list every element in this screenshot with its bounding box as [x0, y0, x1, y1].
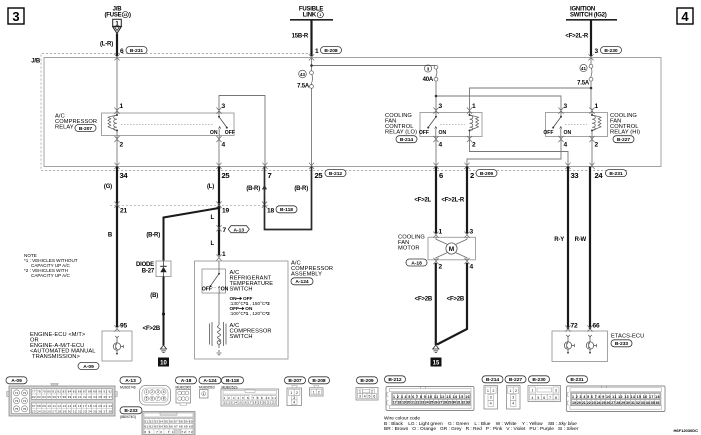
svg-text:1: 1	[439, 229, 443, 236]
svg-text:3: 3	[12, 9, 19, 24]
svg-text:1: 1	[146, 390, 148, 394]
svg-text:ON: ON	[439, 130, 447, 136]
svg-text:95: 95	[120, 323, 127, 330]
wire HI relay pin4 to pin 2 B-209	[467, 139, 561, 167]
svg-text:MU802905: MU802905	[176, 385, 192, 389]
svg-text:DIODE: DIODE	[136, 262, 154, 268]
svg-text:A-13: A-13	[233, 228, 244, 234]
svg-text:18: 18	[267, 208, 274, 215]
svg-text:B-212: B-212	[329, 171, 343, 177]
bottom boundary crossings	[114, 163, 594, 169]
svg-text:74: 74	[23, 399, 27, 403]
svg-text:6: 6	[151, 397, 153, 401]
svg-text:72 73: 72 73	[182, 430, 193, 434]
svg-text:5: 5	[369, 395, 371, 399]
svg-text:1 2 3 4 5 6 7 8 9 10 11 12 13: 1 2 3 4 5 6 7 8 9 10 11 12 13 14 15 16 1…	[572, 395, 660, 399]
node 1 B-208	[315, 47, 342, 55]
svg-text:(L): (L)	[207, 184, 214, 190]
power feed J/B FUSE 13	[104, 7, 131, 34]
svg-text:ON: ON	[221, 287, 229, 293]
svg-text:B-230: B-230	[604, 48, 618, 54]
svg-text:OFF: OFF	[419, 130, 429, 136]
LO relay pin 4	[433, 136, 438, 142]
svg-text:<F>2L-R: <F>2L-R	[565, 34, 588, 40]
connector A-18	[176, 377, 197, 406]
wire AC relay pin4 to pin 25	[218, 139, 220, 167]
svg-text:76: 76	[23, 407, 27, 411]
svg-text:21: 21	[120, 208, 127, 215]
connector A-124	[199, 377, 221, 398]
NOTE text	[24, 253, 78, 278]
A/C relay pin 2	[114, 136, 119, 142]
svg-text:4: 4	[531, 396, 533, 400]
svg-text:RELAY (HI): RELAY (HI)	[610, 130, 640, 136]
svg-text:SWITCH: SWITCH	[230, 287, 253, 293]
wire temp switch to compressor switch	[218, 293, 220, 322]
svg-text:ETACS-ECU: ETACS-ECU	[611, 334, 644, 340]
wire LO relay pin2 to pin 33	[470, 139, 569, 167]
A/C relay pin 4	[216, 136, 221, 142]
svg-text:5: 5	[146, 397, 148, 401]
motor pin 1	[433, 232, 438, 238]
wire diode to ground 10	[163, 277, 165, 346]
connector A-09	[6, 377, 117, 416]
svg-text:1: 1	[120, 103, 124, 110]
junction dot diode branch	[218, 207, 221, 210]
svg-text:77 78 79 80 81 82 83 84 85 86: 77 78 79 80 81 82 83 84 85 86 87 88 89 9…	[32, 390, 112, 394]
svg-text:4: 4	[490, 402, 492, 406]
svg-text:OFF: OFF	[225, 130, 235, 136]
A/C compressor relay label	[55, 114, 97, 132]
svg-text:B-212: B-212	[388, 377, 402, 383]
svg-text:A-09: A-09	[83, 364, 94, 370]
svg-text:2: 2	[318, 390, 320, 394]
svg-text:1: 1	[472, 103, 476, 110]
svg-text:7.5A: 7.5A	[297, 84, 310, 90]
ENGINE-ECU label	[30, 332, 99, 370]
wire (L) pin25 down	[218, 167, 220, 256]
node 3 B-230	[595, 47, 622, 55]
diode B-27	[136, 261, 171, 277]
svg-text:LINK: LINK	[303, 13, 317, 19]
svg-text:L: L	[211, 215, 215, 221]
A/C compressor assembly box	[195, 261, 289, 359]
HI relay pin 3	[558, 108, 563, 114]
pin 24 B-231 label	[595, 170, 627, 180]
svg-text:B-227: B-227	[617, 137, 631, 143]
svg-text:(B-R): (B-R)	[294, 186, 308, 192]
svg-text:1: 1	[532, 389, 534, 393]
svg-text:3: 3	[595, 48, 599, 55]
svg-text:33: 33	[571, 171, 579, 180]
svg-text:B-209: B-209	[480, 171, 494, 177]
svg-text:2: 2	[595, 142, 599, 149]
svg-text:(8B0X74G): (8B0X74G)	[120, 415, 136, 419]
svg-text:Wire colour code: Wire colour code	[384, 416, 420, 422]
wire (L-R) from fuse 13	[116, 34, 118, 56]
svg-text:B-230: B-230	[532, 377, 546, 383]
svg-text:1: 1	[510, 389, 512, 393]
connector B-207	[285, 377, 306, 406]
svg-text:15: 15	[433, 361, 440, 367]
svg-text:19: 19	[222, 208, 229, 215]
wire 15B-R	[310, 20, 312, 56]
svg-text:3: 3	[564, 103, 568, 110]
svg-text:8: 8	[555, 396, 557, 400]
svg-text:24: 24	[595, 171, 604, 180]
svg-text:3: 3	[512, 396, 514, 400]
motor pin 3	[464, 232, 469, 238]
svg-text:A-13: A-13	[125, 378, 136, 384]
wire branch to 40A fuse	[312, 65, 437, 68]
fuse 43 7.5A	[297, 70, 313, 89]
svg-text:B-208: B-208	[312, 378, 326, 384]
LO relay switch	[419, 109, 447, 139]
svg-text:A-124: A-124	[203, 378, 217, 384]
LO relay control dashed	[440, 124, 465, 126]
HI relay coil	[591, 109, 601, 139]
cooling fan control relay HI label	[610, 113, 640, 143]
svg-text:R-Y: R-Y	[554, 237, 564, 243]
cooling fan control relay LO label	[385, 113, 417, 143]
svg-text:3: 3	[439, 103, 443, 110]
motor pin 2	[433, 258, 438, 264]
svg-text:B : Black LG : Light green: B : Black LG : Light green G : Green L :…	[384, 421, 577, 427]
svg-text:2: 2	[492, 389, 494, 393]
motor pin 4	[464, 258, 469, 264]
wire F2L pin6 to motor pin1	[435, 167, 437, 234]
LO relay pin 3	[433, 108, 438, 114]
fusible link 1	[290, 7, 333, 20]
ETACS label	[611, 334, 644, 348]
svg-text:1: 1	[359, 390, 361, 394]
LO relay coil	[469, 109, 479, 139]
svg-text:15B-R: 15B-R	[292, 34, 309, 40]
svg-text:ON: ON	[564, 130, 572, 136]
wire F2L-R pin2 to motor pin3	[466, 167, 468, 234]
svg-text:4: 4	[364, 395, 366, 399]
junction dot 40A output	[435, 95, 438, 98]
B-118 crossing pin 18	[262, 202, 267, 208]
svg-text:ASSEMBLY: ASSEMBLY	[291, 272, 322, 278]
svg-text:92 93 94 95 96 97 98 99 30 31: 92 93 94 95 96 97 98 99 30 31 32 33 34 3…	[32, 395, 112, 399]
svg-text:10: 10	[160, 361, 167, 367]
svg-text:3: 3	[555, 389, 557, 393]
svg-text:34: 34	[120, 171, 129, 180]
svg-text:3: 3	[359, 395, 361, 399]
svg-text:R-W: R-W	[575, 237, 587, 243]
connector 7 A-13	[216, 225, 221, 231]
svg-text:23 24 25 26 27 28 29 30 31 32: 23 24 25 26 27 28 29 30 31 32 33 34 35 3…	[32, 409, 112, 413]
svg-text:<F>2B: <F>2B	[143, 326, 161, 332]
svg-text:3: 3	[470, 229, 474, 236]
svg-text:6: 6	[439, 171, 443, 180]
cooling fan motor label	[398, 235, 427, 267]
svg-text:1: 1	[315, 48, 319, 55]
A/C relay coil	[108, 109, 118, 139]
svg-text:(FUSE: (FUSE	[104, 13, 121, 19]
svg-text:7: 7	[268, 171, 272, 180]
svg-text:(L-R): (L-R)	[100, 42, 113, 48]
connector B-227	[505, 376, 526, 409]
svg-text:6: 6	[543, 396, 545, 400]
svg-text:25: 25	[315, 171, 324, 180]
motor symbol	[436, 237, 467, 259]
svg-text:B-27: B-27	[142, 268, 155, 274]
ETACS-ECU box	[552, 331, 608, 362]
svg-text:(B-R): (B-R)	[146, 233, 160, 239]
svg-text:M: M	[449, 246, 454, 253]
svg-text:3: 3	[490, 396, 492, 400]
svg-text:B-227: B-227	[509, 377, 523, 383]
svg-text:MU802746: MU802746	[120, 385, 136, 389]
wire AC relay pin3 to pin7	[219, 96, 265, 167]
svg-text:B-231: B-231	[570, 377, 584, 383]
svg-text:B-233: B-233	[615, 341, 629, 347]
svg-text:1: 1	[313, 390, 315, 394]
cooling fan control relay HI box	[546, 113, 608, 137]
ETACS pin 72	[565, 325, 570, 331]
connector B-118 dashed line	[110, 204, 270, 206]
svg-text:1 2 3 4 5 6: 1 2 3 4 5 6	[224, 396, 249, 400]
ETACS transistor 1	[564, 335, 574, 354]
svg-text:A-124: A-124	[295, 279, 309, 285]
wire R-Y pin33 to ETACS 72	[567, 167, 569, 330]
svg-text:B-208: B-208	[324, 48, 338, 54]
svg-text:43: 43	[300, 72, 305, 77]
svg-text:4: 4	[163, 390, 165, 394]
wire 15B-R inside jb down to fuse 43	[311, 58, 313, 71]
terminal crossing top boundary x591	[588, 54, 593, 60]
A/C relay control dashed	[121, 124, 214, 126]
wire F2B motor pin4 to ground 15	[437, 263, 467, 345]
svg-text:3: 3	[293, 396, 295, 400]
wire AC relay pin2 to pin 34	[116, 139, 118, 167]
HI relay pin 2	[589, 136, 594, 142]
pin 2 B-209 label	[470, 170, 497, 180]
svg-text:B-118: B-118	[226, 378, 239, 384]
wire fuse41 feed	[590, 58, 592, 109]
svg-text:MU802563: MU802563	[199, 385, 215, 389]
connector B-209	[356, 377, 378, 400]
svg-text:<F>2B: <F>2B	[415, 297, 433, 303]
svg-text:7: 7	[223, 227, 227, 234]
svg-text:7: 7	[157, 397, 159, 401]
svg-text:1 2 3 4 5 6 7 8 9 10 11 12 13: 1 2 3 4 5 6 7 8 9 10 11 12 13 14 15 16	[393, 395, 470, 399]
J/B dashed outline	[41, 54, 628, 171]
svg-text:2: 2	[515, 389, 517, 393]
svg-text:4: 4	[470, 264, 474, 271]
svg-text:1: 1	[222, 251, 226, 258]
connector B-214	[482, 376, 503, 409]
svg-text:2: 2	[296, 391, 298, 395]
HI relay switch	[543, 109, 571, 139]
svg-text:1: 1	[203, 392, 205, 396]
svg-text:7 8 9 10 11: 7 8 9 10 11	[253, 396, 277, 400]
svg-text:13: 13	[123, 13, 127, 17]
wire branch to diode B-27	[164, 208, 220, 261]
svg-text:RELAY (LO): RELAY (LO)	[385, 130, 417, 136]
svg-text:OFF: OFF	[202, 287, 212, 293]
svg-text:25: 25	[222, 171, 231, 180]
wire LO relay pin4 to pin 6	[435, 139, 437, 167]
svg-text:L: L	[211, 241, 215, 247]
svg-text:A-09: A-09	[11, 378, 22, 384]
svg-text:5: 5	[537, 396, 539, 400]
cooling fan control relay LO box	[420, 113, 482, 137]
connector B-212	[385, 376, 475, 411]
svg-text:): )	[129, 13, 131, 19]
svg-text:4: 4	[681, 9, 689, 24]
HI relay pin 4	[558, 136, 563, 142]
pin 25 B-212 label	[315, 170, 347, 180]
svg-text:3: 3	[157, 390, 159, 394]
fuse 41 7.5A	[577, 64, 593, 86]
svg-text:SWITCH: SWITCH	[230, 334, 253, 340]
A/C compressor assembly label	[291, 261, 333, 286]
wire (G) pin34 to ECU pin95	[116, 167, 118, 328]
svg-text:72: 72	[23, 391, 27, 395]
svg-text:BR : Brown O : Orange GR :: BR : Brown O : Orange GR : Grey R : Red …	[384, 426, 579, 432]
svg-text:H6F12030DC: H6F12030DC	[674, 428, 699, 433]
svg-text:3: 3	[222, 103, 226, 110]
svg-text::100°C*1 , 120°C*2: :100°C*1 , 120°C*2	[230, 311, 271, 316]
ETACS pin 66	[587, 325, 592, 331]
B-118 crossing pin 19	[216, 202, 221, 208]
connector B-208	[309, 377, 330, 396]
svg-text:61 62 63 64 65 66 67 68 69 60: 61 62 63 64 65 66 67 68 69 60	[145, 425, 193, 429]
svg-text:4: 4	[293, 400, 295, 404]
ground 10	[160, 345, 167, 353]
svg-text:TRANSMISSION>: TRANSMISSION>	[32, 354, 80, 360]
svg-text:(B-R): (B-R)	[246, 186, 260, 192]
svg-text:B-207: B-207	[79, 126, 93, 132]
HI relay control dashed	[565, 124, 587, 126]
B-118 crossing pin 21	[114, 202, 119, 208]
LO relay pin 2	[467, 136, 472, 142]
svg-text:19 20 21 22 23 24 25 26 27 28: 19 20 21 22 23 24 25 26 27 28 29 30 31 3…	[572, 401, 660, 405]
svg-text:ON: ON	[210, 130, 218, 136]
svg-text:7.5A: 7.5A	[577, 81, 590, 87]
svg-text:07 08 09 10 11 12 13 14 15 16: 07 08 09 10 11 12 13 14 15 16 17 18 19 2…	[32, 404, 112, 408]
svg-text:J/B: J/B	[31, 59, 41, 65]
wire jb feed to relay pin1	[116, 58, 118, 109]
svg-text:MOTOR: MOTOR	[398, 246, 420, 252]
wire HI relay pin2 to pin 24 B-231	[591, 139, 593, 167]
wire colour code	[384, 416, 579, 433]
junction dot 7.5A-41 output	[590, 87, 593, 90]
LO relay pin 1	[467, 108, 472, 114]
svg-text:A-18: A-18	[411, 260, 422, 266]
connector B-233	[120, 407, 195, 435]
temperature values	[230, 296, 271, 316]
connector B-231	[567, 376, 666, 412]
wire B-R U loop through B-118	[265, 167, 312, 230]
connector B-230	[528, 376, 561, 402]
page number box 4	[677, 8, 693, 24]
svg-text:A-18: A-18	[181, 378, 192, 384]
svg-text:1: 1	[487, 389, 489, 393]
compressor switch label	[230, 323, 272, 340]
svg-text:1: 1	[290, 391, 292, 395]
wire F2B motor pin2 to ground 15	[435, 263, 437, 345]
ENGINE-ECU transistor	[113, 336, 123, 355]
ETACS transistor 2	[586, 335, 596, 354]
svg-text:75: 75	[15, 407, 19, 411]
svg-text:(B): (B)	[150, 293, 158, 299]
A/C relay switch	[210, 109, 235, 139]
wire fuse43 to pin 25 B-212	[311, 89, 313, 167]
A/C compressor relay B-207 box	[102, 113, 235, 136]
wire 2L-R from ignition switch	[590, 20, 592, 56]
svg-text:2: 2	[151, 390, 153, 394]
svg-text:<F>2L-R: <F>2L-R	[441, 198, 464, 204]
svg-text:<F>2B: <F>2B	[447, 297, 465, 303]
svg-text:1: 1	[595, 103, 599, 110]
svg-text:4: 4	[439, 142, 443, 149]
terminal crossing top boundary x312	[309, 54, 314, 60]
svg-text:B-233: B-233	[124, 408, 138, 414]
cooling fan motor box	[428, 237, 476, 259]
svg-text:12 13 14 15 16 17 18 19 20 21: 12 13 14 15 16 17 18 19 20 21 22	[224, 401, 277, 405]
svg-text:B-214: B-214	[486, 377, 500, 383]
svg-text:2: 2	[470, 171, 474, 180]
svg-text:SWITCH (IG2): SWITCH (IG2)	[570, 13, 607, 19]
svg-text:72: 72	[571, 323, 578, 330]
terminal crossing top boundary x117	[114, 54, 119, 60]
ENGINE-ECU box	[102, 331, 132, 361]
svg-text:(G): (G)	[104, 184, 112, 190]
J/B solid box	[44, 58, 661, 167]
junction dot at 15B-R branch	[310, 64, 313, 67]
svg-text:B-231: B-231	[609, 171, 623, 177]
A/C refrigerant temperature switch	[202, 261, 229, 293]
svg-text:B-214: B-214	[400, 137, 414, 143]
direction arrow on B-118 left segment	[263, 186, 267, 196]
svg-text:B-207: B-207	[288, 378, 302, 384]
svg-text:51 52 53 54 55 56 57 58 59 60: 51 52 53 54 55 56 57 58 59 60	[145, 420, 193, 424]
pin 1 into assembly	[216, 254, 221, 260]
svg-text:6: 6	[120, 48, 124, 55]
A/C compressor switch (clutch coil)	[210, 322, 227, 355]
A/C relay pin 1	[114, 108, 119, 114]
svg-text:7: 7	[549, 396, 551, 400]
svg-text:<F>2L: <F>2L	[414, 198, 431, 204]
connector A-13	[120, 377, 171, 405]
page number box 3	[8, 8, 24, 24]
node 6 B-231	[120, 47, 147, 55]
svg-text:6: 6	[373, 395, 375, 399]
svg-text:B-118: B-118	[280, 207, 293, 213]
svg-text:RELAY: RELAY	[55, 125, 74, 131]
fuse 3 40A	[423, 65, 438, 83]
svg-text:B-209: B-209	[360, 378, 374, 384]
bus 40A output to HI relay pin3	[436, 96, 561, 109]
svg-text:2: 2	[439, 264, 443, 271]
HI relay pin 1	[589, 108, 594, 114]
svg-text:4: 4	[564, 142, 568, 149]
svg-text:1: 1	[319, 13, 321, 17]
svg-text:OFF: OFF	[543, 130, 553, 136]
svg-text:71: 71	[15, 391, 19, 395]
temperature switch label	[230, 270, 274, 293]
wire R-W pin24 to ETACS 66	[589, 167, 591, 330]
svg-text:40A: 40A	[423, 77, 434, 83]
connector B-118	[221, 377, 279, 406]
svg-text:B-231: B-231	[130, 48, 144, 54]
wire fuse3 to LO relay pin3	[435, 81, 437, 109]
svg-text:41: 41	[581, 66, 586, 71]
